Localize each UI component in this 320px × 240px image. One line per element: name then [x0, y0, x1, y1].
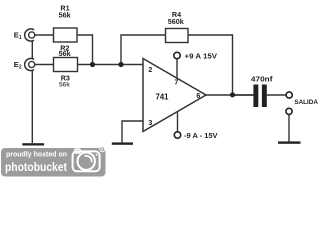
wire SALIDA ground terminal down — [288, 115, 290, 142]
svg-text:+9 A 15V: +9 A 15V — [185, 52, 218, 61]
output ground terminal — [286, 108, 292, 114]
wire R1 to node A — [77, 35, 93, 65]
node B junction — [118, 62, 123, 67]
power terminal -V — [174, 131, 217, 140]
wire node C to capacitor — [233, 94, 254, 96]
wire op-amp output pin 6 to node C — [206, 94, 253, 96]
wire op-amp pin 3 to ground — [122, 121, 143, 142]
svg-text:-9 A - 15V: -9 A - 15V — [184, 131, 218, 140]
svg-text:SALIDA: SALIDA — [294, 99, 318, 106]
resistor label R3 — [59, 73, 70, 88]
resistor R4 — [166, 10, 189, 43]
wire E1 to R1 — [35, 34, 54, 36]
ground (op-amp pin 3) — [112, 142, 133, 144]
resistor R1 — [54, 4, 78, 42]
wire E2 to R2 — [35, 64, 54, 66]
svg-text:6: 6 — [196, 93, 200, 100]
wire +V terminal to op-amp top edge — [176, 59, 178, 79]
svg-text:7: 7 — [174, 80, 178, 87]
svg-text:470nf: 470nf — [251, 74, 273, 83]
photobucket watermark — [1, 147, 106, 177]
wire node B to R4 left — [121, 35, 166, 65]
svg-text:proudly hosted on: proudly hosted on — [6, 151, 67, 158]
capacitor C1 470nf — [251, 74, 273, 107]
input terminal E1 — [14, 29, 35, 41]
output terminal SALIDA — [286, 92, 318, 106]
wire -V terminal to op-amp bottom edge — [177, 112, 179, 132]
wire E1 shield to E2 shield — [31, 41, 33, 59]
wire E2 shield to ground — [31, 70, 33, 143]
svg-text:56k: 56k — [59, 49, 71, 58]
wire R4 right to node C — [188, 35, 233, 95]
resistor R2 — [54, 43, 78, 71]
svg-text:3: 3 — [148, 120, 152, 127]
wire R2 to op-amp pin 2 — [78, 64, 144, 66]
svg-text:560k: 560k — [168, 17, 184, 26]
svg-text:741: 741 — [155, 92, 169, 101]
node C junction — [230, 92, 235, 97]
power terminal +V — [174, 52, 217, 61]
svg-text:56k: 56k — [59, 10, 71, 19]
input terminal E2 — [14, 58, 35, 70]
node A junction — [90, 62, 95, 67]
svg-text:56k: 56k — [59, 81, 70, 88]
ground (inputs shield) — [22, 143, 44, 145]
wire capacitor to SALIDA terminal — [267, 94, 286, 96]
svg-text:2: 2 — [148, 67, 152, 74]
ground (output) — [278, 141, 301, 143]
svg-text:photobucket: photobucket — [5, 160, 67, 174]
op-amp U1 741 — [143, 59, 206, 132]
